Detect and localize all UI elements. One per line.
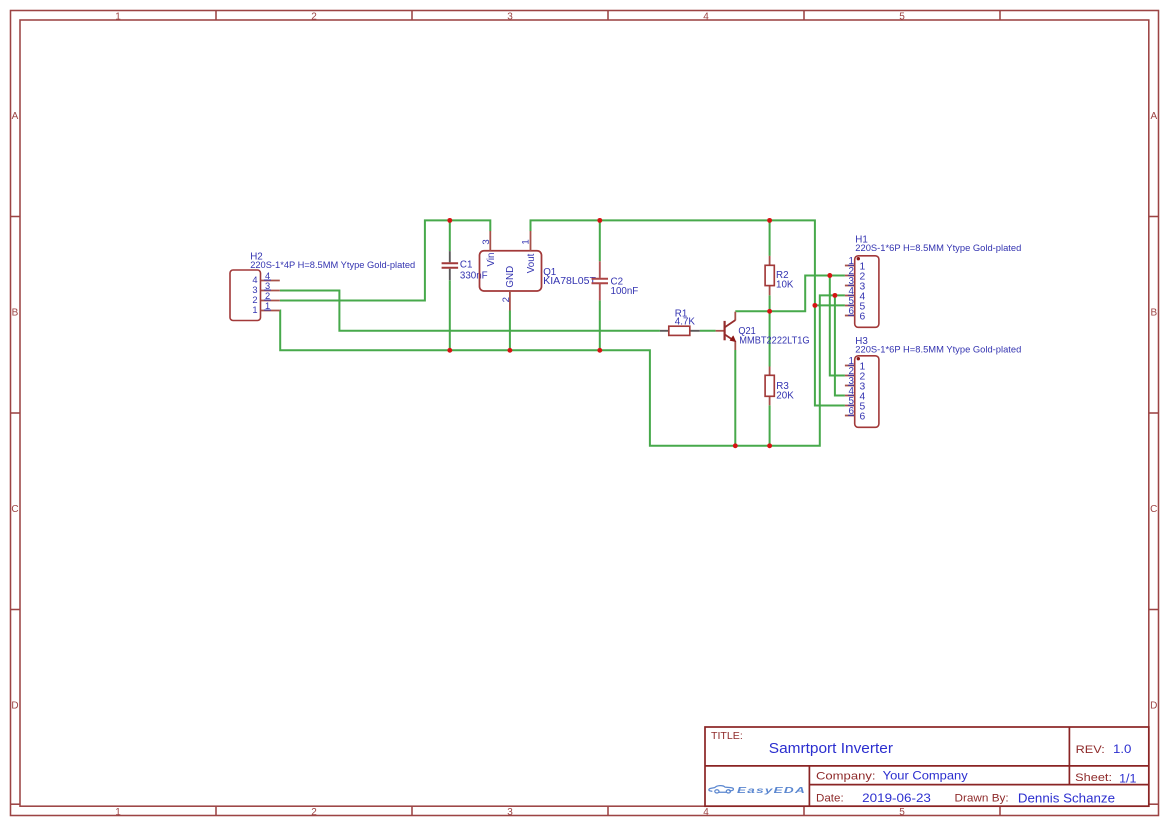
emitter lead bbox=[734, 341, 736, 350]
wire Vin rail: H2 pin2 to C1/Q1 Vin bbox=[280, 220, 491, 300]
svg-text:3: 3 bbox=[507, 807, 513, 818]
collector lead bbox=[734, 312, 736, 321]
svg-text:C1: C1 bbox=[460, 259, 473, 270]
connector H1 bbox=[845, 235, 1021, 328]
svg-text:1: 1 bbox=[252, 305, 257, 315]
collector diagonal bbox=[725, 320, 736, 327]
junction ground / C1 bbox=[447, 348, 452, 353]
wire Q1 GND down bbox=[509, 311, 511, 351]
junction H1 pin2 / H3 pin2 bbox=[827, 273, 832, 278]
svg-text:2: 2 bbox=[252, 295, 257, 305]
svg-text:Dennis Schanze: Dennis Schanze bbox=[1018, 791, 1115, 805]
wire base net: H2 pin3 to R1 bbox=[280, 291, 660, 331]
junction collector / R2-R3 bbox=[767, 309, 772, 314]
svg-text:EasyEDA: EasyEDA bbox=[737, 785, 806, 795]
svg-text:C: C bbox=[11, 504, 18, 515]
svg-text:220S-1*6P H=8.5MM Ytype Gold-p: 220S-1*6P H=8.5MM Ytype Gold-plated bbox=[855, 243, 1021, 254]
svg-text:1: 1 bbox=[521, 239, 532, 244]
junction ground / Q1 GND bbox=[507, 348, 512, 353]
svg-text:REV:: REV: bbox=[1076, 744, 1105, 756]
svg-text:3: 3 bbox=[481, 239, 492, 244]
wire H1 pin5 branch bbox=[815, 304, 845, 306]
svg-text:1.0: 1.0 bbox=[1113, 742, 1132, 756]
wire R2 top bbox=[769, 220, 771, 256]
svg-text:2: 2 bbox=[311, 807, 317, 818]
svg-text:100nF: 100nF bbox=[611, 286, 639, 297]
wire H3 pin4 branch bbox=[835, 295, 845, 395]
svg-text:6: 6 bbox=[860, 412, 866, 423]
svg-text:Vin: Vin bbox=[486, 253, 497, 267]
wire C2 bottom bbox=[599, 300, 601, 350]
svg-text:4.7K: 4.7K bbox=[675, 317, 696, 328]
wire R1 to Q21 base bbox=[700, 330, 716, 332]
junction Vin rail / C1 bbox=[447, 218, 452, 223]
svg-text:220S-1*4P H=8.5MM Ytype Gold-p: 220S-1*4P H=8.5MM Ytype Gold-plated bbox=[250, 260, 415, 271]
wire Vout rail: Q1 Vout to H1 pin5 / H3 pin5 bbox=[531, 220, 845, 405]
junction H1 pin4 / H3 pin4 bbox=[832, 293, 837, 298]
wire C1 bottom bbox=[449, 280, 451, 350]
svg-text:3: 3 bbox=[507, 11, 513, 22]
svg-text:TITLE:: TITLE: bbox=[711, 731, 743, 742]
emitter diagonal with arrow bbox=[725, 334, 735, 341]
svg-text:Vout: Vout bbox=[526, 253, 537, 273]
resistor R2 bbox=[765, 256, 794, 295]
base lead bbox=[716, 330, 725, 332]
svg-text:D: D bbox=[11, 700, 18, 711]
svg-text:2: 2 bbox=[501, 297, 512, 302]
junction ground / R3 bbox=[767, 443, 772, 448]
svg-text:5: 5 bbox=[899, 807, 905, 818]
svg-text:5: 5 bbox=[899, 11, 905, 22]
svg-text:Your Company: Your Company bbox=[883, 769, 969, 783]
svg-text:2019-06-23: 2019-06-23 bbox=[862, 791, 931, 805]
svg-text:1/1: 1/1 bbox=[1119, 771, 1137, 785]
svg-text:2: 2 bbox=[311, 11, 317, 22]
wire collector net: Q21 collector to H1 pin2 bbox=[735, 276, 845, 312]
svg-text:6: 6 bbox=[860, 312, 866, 323]
voltage regulator U/Q1 KIA78L05T bbox=[480, 231, 597, 311]
H3 polarity dot bbox=[857, 357, 860, 360]
svg-text:Samrtport Inverter: Samrtport Inverter bbox=[769, 741, 893, 757]
svg-text:GND: GND bbox=[505, 266, 516, 288]
capacitor C1 bbox=[442, 251, 488, 281]
junction Vout / H1 pin5 bbox=[812, 303, 817, 308]
junction ground / C2 bbox=[597, 348, 602, 353]
H1 polarity dot bbox=[857, 257, 860, 260]
wire C2 top bbox=[599, 220, 601, 261]
svg-text:20K: 20K bbox=[776, 390, 794, 401]
junction Vout rail / C2 bbox=[597, 218, 602, 223]
junction dots bbox=[447, 218, 837, 448]
wire R2 bottom bbox=[769, 295, 771, 311]
wire Q21 emitter down bbox=[734, 350, 736, 446]
svg-text:4: 4 bbox=[703, 807, 709, 818]
svg-text:B: B bbox=[12, 307, 19, 318]
svg-text:KIA78L05T: KIA78L05T bbox=[543, 276, 596, 287]
resistor R1 bbox=[660, 308, 700, 335]
junction ground / emitter bbox=[733, 443, 738, 448]
wire R3 top bbox=[769, 311, 771, 366]
svg-text:Drawn By:: Drawn By: bbox=[955, 793, 1009, 805]
svg-text:MMBT2222LT1G: MMBT2222LT1G bbox=[739, 335, 809, 346]
svg-text:1: 1 bbox=[115, 807, 121, 818]
wire H3 pin2 branch bbox=[830, 276, 845, 376]
svg-text:4: 4 bbox=[252, 275, 257, 285]
EasyEDA logo bbox=[709, 786, 734, 793]
connector H2 bbox=[230, 252, 415, 321]
svg-text:Date:: Date: bbox=[816, 793, 844, 805]
svg-text:A: A bbox=[1150, 111, 1157, 122]
svg-text:C: C bbox=[1150, 504, 1157, 515]
svg-text:10K: 10K bbox=[776, 279, 794, 290]
transistor Q21 MMBT2222LT1G bbox=[716, 312, 810, 350]
svg-text:B: B bbox=[1150, 307, 1157, 318]
base bar bbox=[723, 321, 725, 340]
svg-text:A: A bbox=[12, 111, 19, 122]
svg-text:Company:: Company: bbox=[816, 771, 876, 783]
wire ground net main: H2 pin1, bottom rails, H1 pin4 bbox=[280, 295, 845, 445]
resistor R3 bbox=[765, 367, 794, 406]
svg-text:220S-1*6P H=8.5MM Ytype Gold-p: 220S-1*6P H=8.5MM Ytype Gold-plated bbox=[855, 344, 1021, 355]
wire C1 top bbox=[449, 220, 451, 251]
svg-text:Sheet:: Sheet: bbox=[1075, 772, 1112, 784]
wire R3 bottom bbox=[769, 405, 771, 446]
svg-text:4: 4 bbox=[703, 11, 709, 22]
svg-text:330nF: 330nF bbox=[460, 271, 488, 282]
capacitor C2 bbox=[592, 261, 639, 300]
junction Vout rail / R2 bbox=[767, 218, 772, 223]
svg-text:3: 3 bbox=[252, 285, 257, 295]
svg-text:1: 1 bbox=[115, 11, 121, 22]
connector H3 bbox=[845, 336, 1021, 427]
svg-text:D: D bbox=[1150, 700, 1157, 711]
